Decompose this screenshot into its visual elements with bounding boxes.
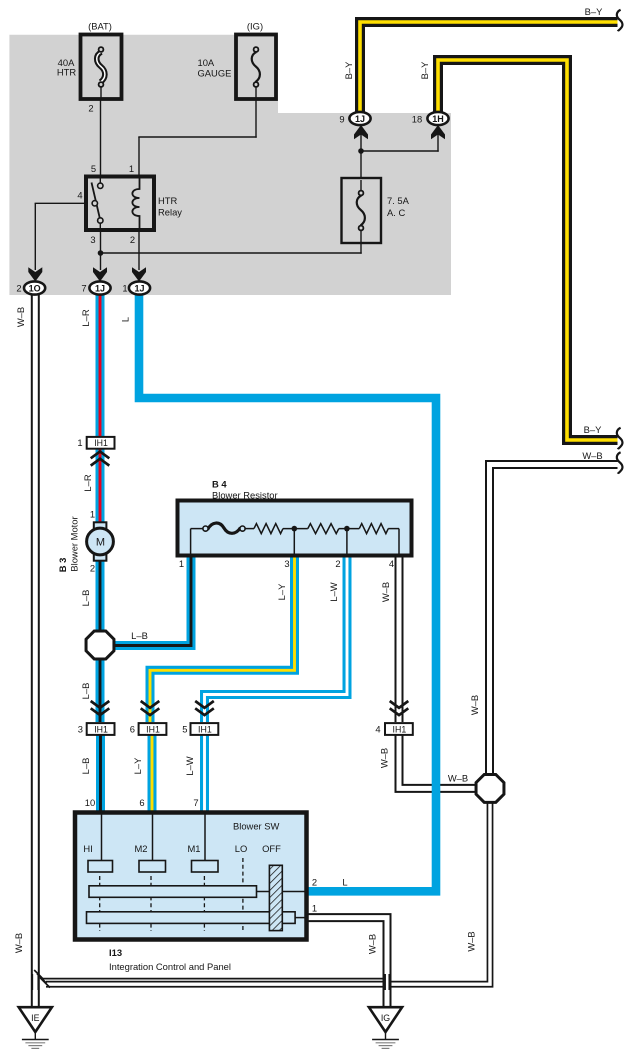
svg-text:Relay: Relay — [158, 207, 182, 218]
svg-text:L: L — [342, 877, 347, 888]
svg-text:IH1: IH1 — [393, 724, 407, 734]
svg-text:1J: 1J — [355, 114, 365, 124]
svg-text:IH1: IH1 — [94, 438, 108, 448]
svg-text:L–B: L–B — [80, 758, 91, 775]
svg-text:1O: 1O — [29, 283, 41, 293]
svg-text:W–B: W–B — [379, 748, 390, 768]
svg-text:W–B: W–B — [13, 933, 24, 953]
svg-text:6: 6 — [139, 797, 144, 808]
svg-text:1H: 1H — [432, 114, 444, 124]
svg-text:3: 3 — [284, 558, 289, 569]
svg-text:1: 1 — [129, 163, 134, 174]
svg-text:IH1: IH1 — [198, 724, 212, 734]
svg-text:4: 4 — [77, 190, 82, 201]
svg-text:HTR: HTR — [158, 195, 177, 206]
svg-text:Blower SW: Blower SW — [233, 821, 280, 832]
svg-text:2: 2 — [88, 103, 93, 114]
svg-text:4: 4 — [389, 558, 394, 569]
svg-text:2: 2 — [130, 234, 135, 245]
svg-text:M1: M1 — [187, 843, 200, 854]
svg-text:4: 4 — [375, 724, 380, 735]
svg-text:Blower Motor: Blower Motor — [69, 516, 80, 571]
svg-text:L–B: L–B — [131, 630, 148, 641]
svg-text:W–B: W–B — [448, 773, 468, 784]
svg-text:1J: 1J — [134, 283, 144, 293]
svg-text:10: 10 — [85, 797, 95, 808]
svg-text:HI: HI — [83, 843, 92, 854]
svg-text:L–Y: L–Y — [132, 757, 143, 774]
svg-text:IG: IG — [381, 1013, 390, 1023]
svg-text:3: 3 — [78, 724, 83, 735]
svg-text:1: 1 — [179, 558, 184, 569]
svg-text:2: 2 — [16, 283, 21, 294]
svg-text:1: 1 — [90, 509, 95, 520]
svg-text:5: 5 — [91, 163, 96, 174]
svg-text:18: 18 — [412, 114, 422, 125]
svg-text:L–Y: L–Y — [276, 583, 287, 600]
svg-text:1: 1 — [122, 283, 127, 294]
svg-text:Blower Resistor: Blower Resistor — [212, 490, 278, 501]
svg-text:IH1: IH1 — [146, 724, 160, 734]
svg-text:9: 9 — [339, 114, 344, 125]
svg-text:W–B: W–B — [15, 307, 26, 327]
svg-text:(BAT): (BAT) — [88, 21, 112, 32]
svg-text:7: 7 — [81, 283, 86, 294]
svg-text:W–B: W–B — [582, 450, 602, 461]
svg-text:W–B: W–B — [367, 934, 378, 954]
svg-text:A. C: A. C — [387, 207, 405, 218]
svg-text:IH1: IH1 — [94, 724, 108, 734]
svg-text:L–B: L–B — [80, 590, 91, 607]
svg-text:1J: 1J — [95, 283, 105, 293]
svg-text:B–Y: B–Y — [585, 6, 603, 17]
svg-text:I13: I13 — [109, 947, 122, 958]
svg-text:3: 3 — [90, 234, 95, 245]
svg-text:W–B: W–B — [380, 582, 391, 602]
svg-text:B 3: B 3 — [57, 558, 68, 573]
svg-text:W–B: W–B — [466, 931, 477, 951]
svg-text:L–W: L–W — [184, 756, 195, 775]
svg-text:1: 1 — [77, 437, 82, 448]
svg-text:L–R: L–R — [80, 309, 91, 326]
svg-text:B–Y: B–Y — [584, 424, 602, 435]
svg-text:Integration Control and Panel: Integration Control and Panel — [109, 961, 231, 972]
svg-text:B–Y: B–Y — [419, 61, 430, 79]
svg-text:10A: 10A — [198, 57, 215, 68]
svg-text:M: M — [96, 537, 105, 549]
svg-text:B 4: B 4 — [212, 479, 227, 490]
svg-text:M2: M2 — [134, 843, 147, 854]
svg-text:7: 7 — [193, 797, 198, 808]
svg-text:1: 1 — [312, 903, 317, 914]
svg-text:5: 5 — [182, 724, 187, 735]
svg-text:W–B: W–B — [469, 695, 480, 715]
svg-text:7. 5A: 7. 5A — [387, 195, 410, 206]
svg-text:6: 6 — [130, 724, 135, 735]
svg-text:B–Y: B–Y — [343, 61, 354, 79]
svg-text:L–B: L–B — [80, 683, 91, 700]
svg-text:L–R: L–R — [82, 474, 93, 491]
svg-text:(IG): (IG) — [247, 21, 263, 32]
svg-text:LO: LO — [235, 843, 248, 854]
svg-text:OFF: OFF — [262, 843, 281, 854]
svg-text:2: 2 — [90, 563, 95, 574]
svg-text:2: 2 — [335, 558, 340, 569]
svg-text:HTR: HTR — [57, 66, 76, 77]
svg-text:IE: IE — [31, 1013, 39, 1023]
svg-text:GAUGE: GAUGE — [198, 68, 232, 79]
svg-text:2: 2 — [312, 877, 317, 888]
svg-text:L: L — [120, 317, 131, 322]
svg-text:L–W: L–W — [328, 582, 339, 601]
